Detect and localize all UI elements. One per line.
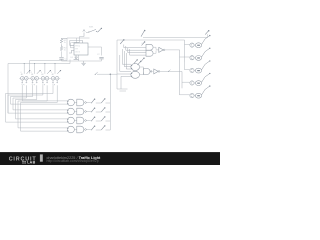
svg-text:CV G: CV G (75, 51, 80, 53)
svg-text:1k: 1k (64, 42, 66, 44)
svg-text:Q q: Q q (32, 84, 35, 86)
svg-text:Q q: Q q (42, 84, 45, 86)
svg-text:1k: 1k (64, 50, 66, 52)
svg-text:Q q: Q q (52, 84, 55, 86)
svg-text:Q q: Q q (21, 84, 24, 86)
svg-text:LAB: LAB (27, 161, 35, 165)
svg-text:http://circuitlab.com/c9sdq50e: http://circuitlab.com/c9sdq50e92p (47, 159, 99, 163)
svg-text:TR Q: TR Q (75, 45, 80, 47)
